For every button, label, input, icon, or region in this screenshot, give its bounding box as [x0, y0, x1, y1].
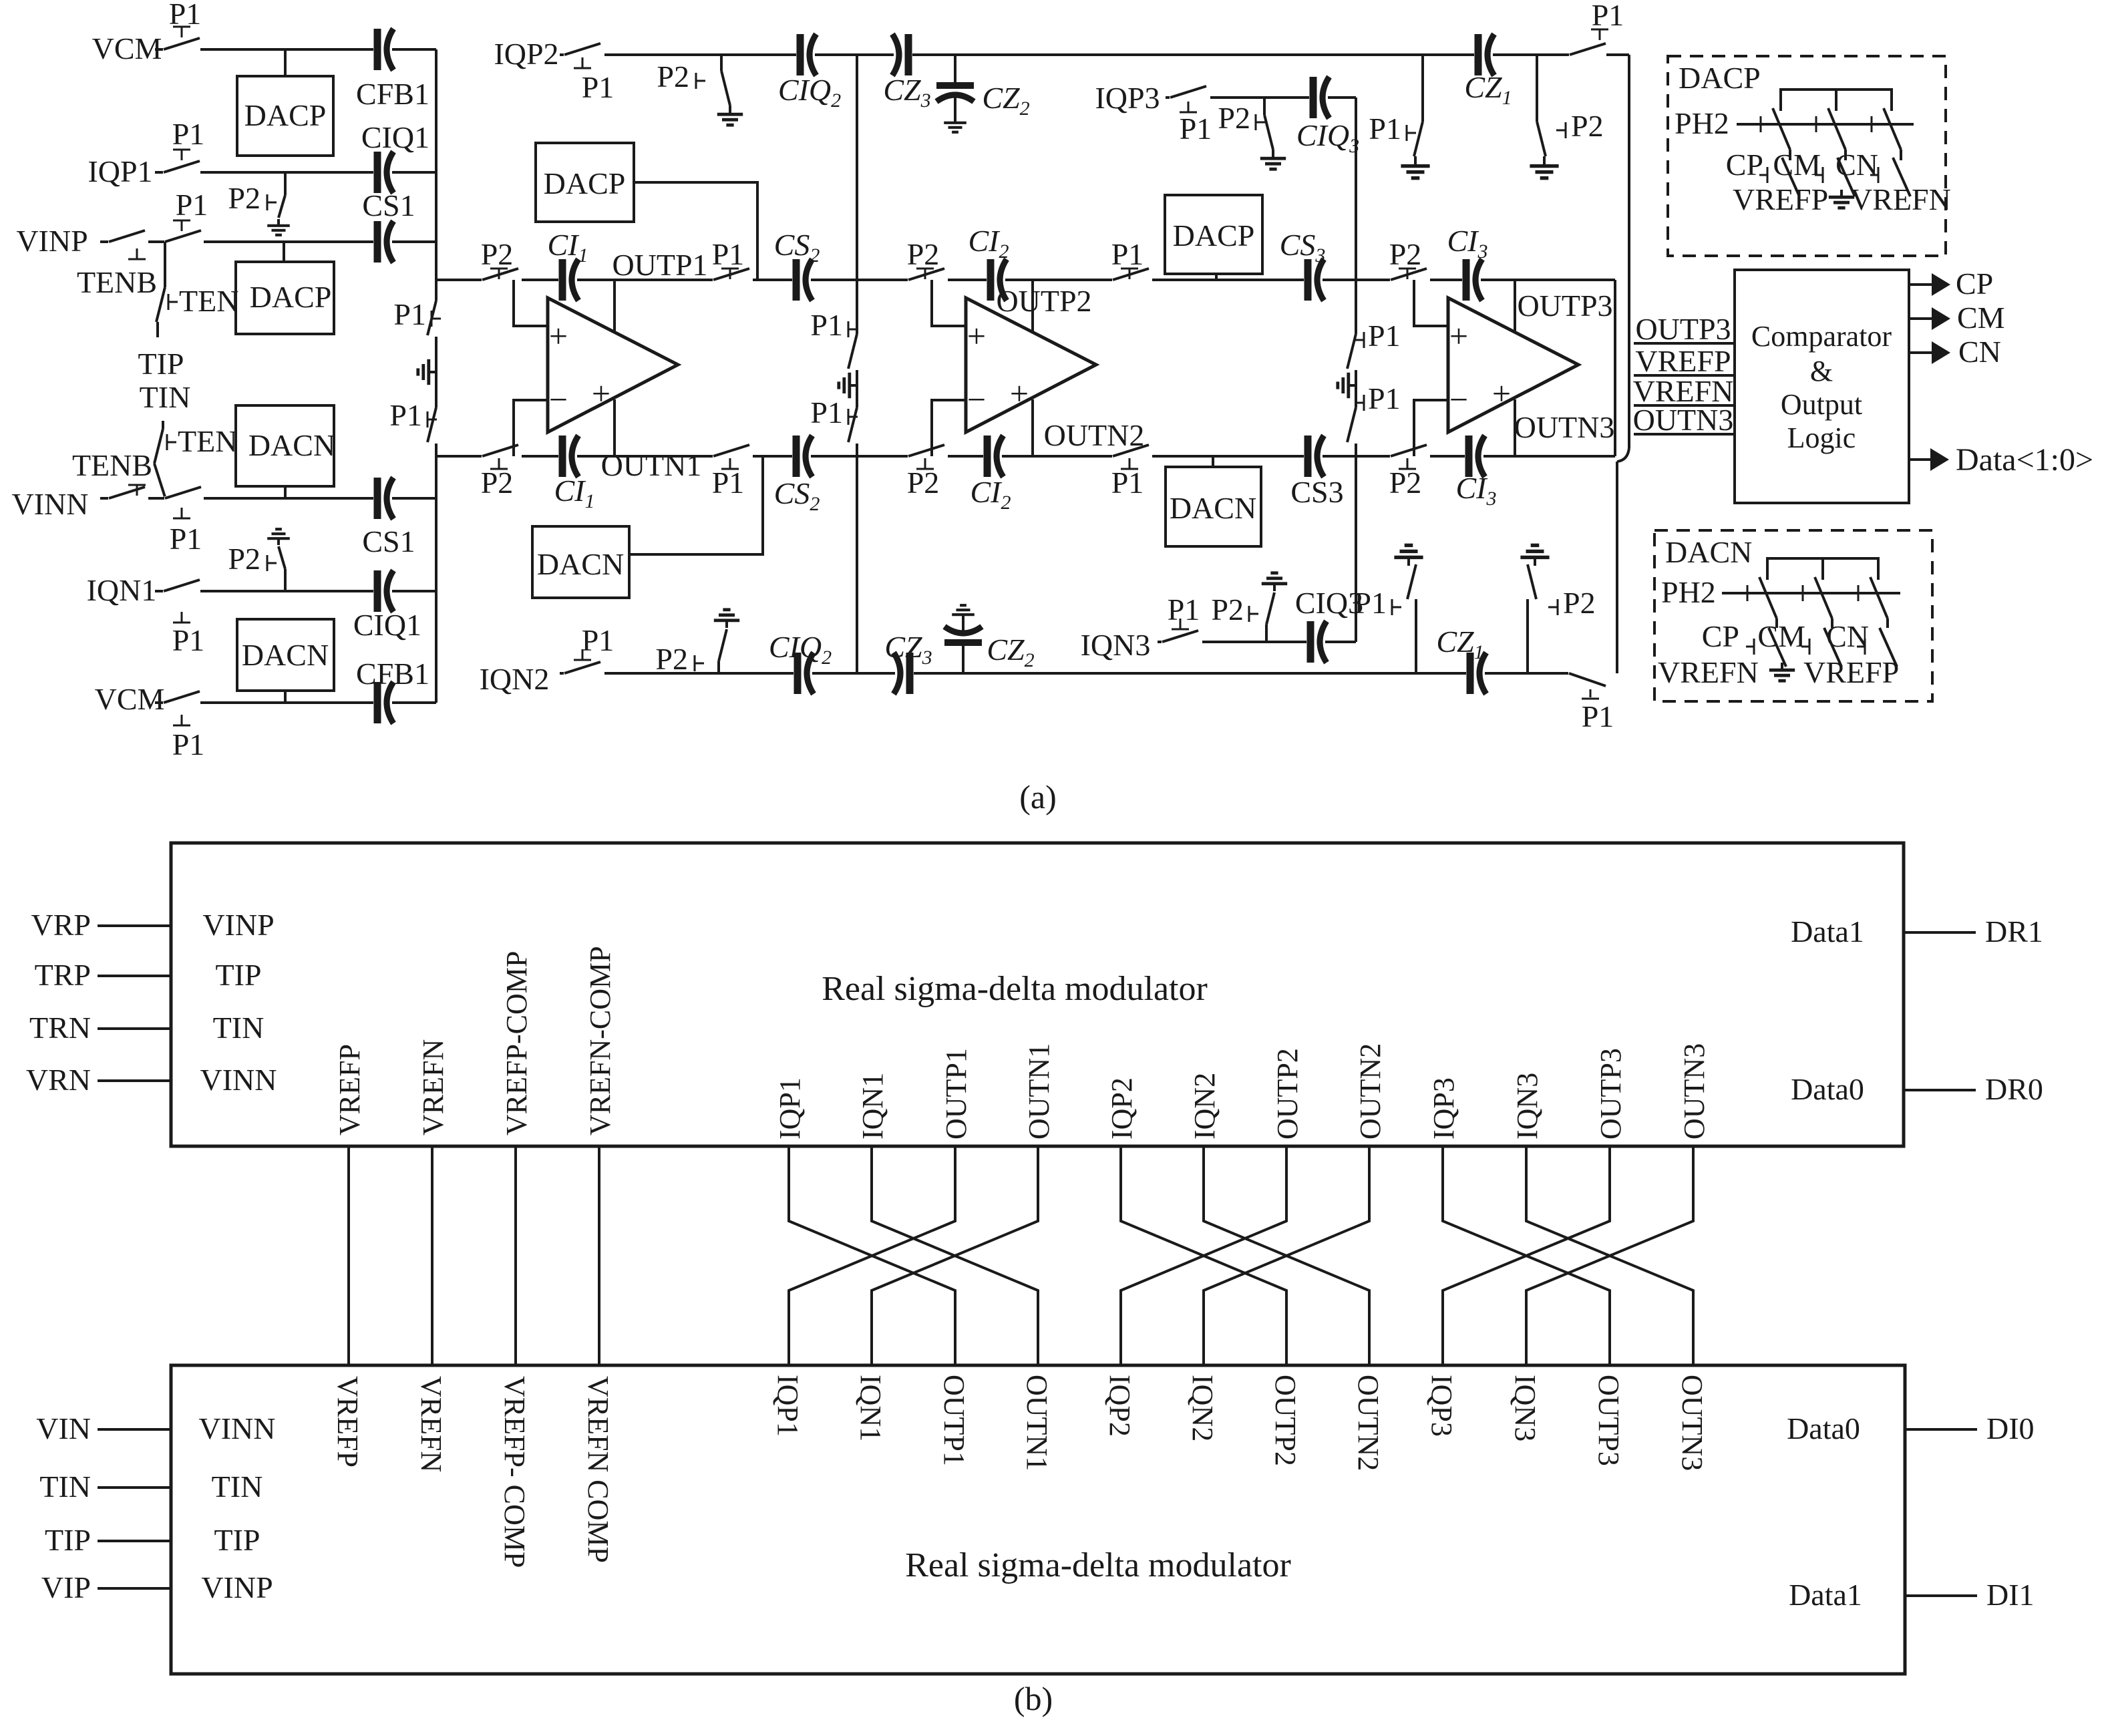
- svg-text:TIN: TIN: [39, 1469, 91, 1504]
- svg-text:IQN1: IQN1: [87, 573, 157, 607]
- svg-text:DACN: DACN: [1170, 491, 1256, 525]
- svg-text:IQN1: IQN1: [856, 1073, 889, 1140]
- svg-text:VCM: VCM: [92, 31, 162, 65]
- svg-text:P2: P2: [907, 237, 940, 271]
- svg-text:P2: P2: [1389, 237, 1422, 271]
- svg-text:P1: P1: [172, 117, 205, 151]
- svg-text:TIN: TIN: [213, 1011, 265, 1045]
- svg-text:VREFP- COMP: VREFP- COMP: [498, 1376, 531, 1568]
- svg-text:VIP: VIP: [41, 1570, 91, 1604]
- svg-text:VREFP-COMP: VREFP-COMP: [500, 951, 533, 1136]
- svg-text:OUTN3: OUTN3: [1633, 403, 1734, 437]
- svg-text:P2: P2: [1389, 466, 1422, 500]
- svg-text:IQP3: IQP3: [1095, 81, 1160, 115]
- svg-text:PH2: PH2: [1661, 575, 1716, 609]
- svg-text:P1: P1: [810, 395, 843, 429]
- svg-text:VREFN: VREFN: [415, 1376, 448, 1472]
- svg-text:IQP3: IQP3: [1427, 1077, 1460, 1140]
- svg-text:Logic: Logic: [1787, 421, 1856, 454]
- svg-text:DR1: DR1: [1985, 914, 2043, 948]
- svg-text:−: −: [967, 381, 986, 418]
- svg-text:Data1: Data1: [1791, 914, 1864, 948]
- svg-text:TIP: TIP: [138, 347, 184, 381]
- svg-text:P2: P2: [228, 181, 260, 215]
- svg-text:P1: P1: [1111, 466, 1144, 500]
- svg-text:−: −: [1449, 381, 1468, 418]
- svg-text:P1: P1: [169, 0, 202, 31]
- svg-text:P1: P1: [810, 308, 843, 342]
- svg-text:DACN: DACN: [537, 547, 624, 581]
- svg-text:IQN2: IQN2: [480, 662, 550, 696]
- svg-text:Real sigma-delta modulator: Real sigma-delta modulator: [822, 970, 1208, 1008]
- svg-text:IQN3: IQN3: [1511, 1073, 1544, 1140]
- svg-text:P1: P1: [393, 297, 426, 331]
- svg-text:CS1: CS1: [362, 524, 415, 558]
- svg-text:CM: CM: [1957, 301, 2005, 335]
- svg-text:VINN: VINN: [200, 1063, 277, 1097]
- svg-text:CIQ1: CIQ1: [353, 608, 421, 642]
- svg-text:VIN: VIN: [36, 1411, 91, 1445]
- svg-text:OUTN3: OUTN3: [1676, 1375, 1709, 1471]
- svg-text:P2: P2: [481, 466, 514, 500]
- svg-text:P1: P1: [176, 188, 208, 222]
- svg-text:DACN: DACN: [248, 428, 335, 462]
- svg-text:PH2: PH2: [1675, 106, 1729, 140]
- svg-text:IQN3: IQN3: [1081, 628, 1151, 662]
- svg-text:IQP3: IQP3: [1425, 1375, 1458, 1437]
- svg-text:P2: P2: [228, 542, 260, 576]
- svg-text:DACP: DACP: [250, 280, 332, 314]
- svg-text:Data1: Data1: [1789, 1578, 1862, 1612]
- svg-text:VRN: VRN: [26, 1063, 91, 1097]
- svg-text:P1: P1: [1368, 319, 1401, 353]
- svg-text:P1: P1: [1354, 586, 1387, 620]
- svg-text:CP: CP: [1726, 148, 1763, 182]
- svg-text:P1: P1: [712, 466, 745, 500]
- svg-text:&: &: [1810, 355, 1833, 387]
- svg-text:OUTP3: OUTP3: [1592, 1375, 1625, 1466]
- svg-text:VCM: VCM: [95, 682, 165, 716]
- svg-text:P1: P1: [1582, 699, 1614, 733]
- svg-text:CFB1: CFB1: [356, 77, 429, 111]
- svg-text:VREFP: VREFP: [1733, 182, 1828, 216]
- svg-text:VREFP: VREFP: [1803, 655, 1899, 689]
- svg-text:IQP2: IQP2: [1105, 1077, 1138, 1140]
- svg-text:IQP1: IQP1: [87, 154, 152, 188]
- svg-text:TENB: TENB: [72, 448, 152, 482]
- svg-text:OUTN2: OUTN2: [1354, 1043, 1387, 1140]
- svg-text:P1: P1: [712, 237, 745, 271]
- svg-text:P1: P1: [1111, 237, 1144, 271]
- svg-text:TIN: TIN: [140, 380, 191, 414]
- svg-text:OUTP3: OUTP3: [1517, 289, 1612, 323]
- svg-text:VREFP: VREFP: [331, 1376, 364, 1467]
- svg-text:VREFN-COMP: VREFN-COMP: [584, 946, 617, 1136]
- svg-text:TIP: TIP: [214, 1523, 260, 1557]
- svg-text:OUTN3: OUTN3: [1678, 1043, 1711, 1140]
- svg-text:TIN: TIN: [212, 1469, 263, 1504]
- svg-text:+: +: [1010, 375, 1029, 412]
- svg-text:P1: P1: [1592, 0, 1624, 32]
- svg-text:DR0: DR0: [1985, 1072, 2043, 1106]
- svg-text:TRN: TRN: [29, 1011, 91, 1045]
- svg-text:CIQ3: CIQ3: [1295, 586, 1363, 620]
- svg-text:Data<1:0>: Data<1:0>: [1956, 442, 2093, 478]
- svg-text:OUTN1: OUTN1: [1021, 1375, 1053, 1471]
- svg-text:Comparator: Comparator: [1751, 320, 1892, 353]
- svg-text:P2: P2: [657, 59, 689, 94]
- svg-text:CP: CP: [1956, 267, 1993, 301]
- svg-text:VINP: VINP: [202, 908, 274, 942]
- svg-text:DI1: DI1: [1986, 1578, 2035, 1612]
- svg-text:CS3: CS3: [1290, 475, 1343, 509]
- svg-text:CS1: CS1: [362, 188, 415, 222]
- svg-text:VREFN COMP: VREFN COMP: [582, 1376, 615, 1563]
- svg-text:OUTP1: OUTP1: [612, 248, 707, 282]
- svg-text:VINN: VINN: [199, 1411, 276, 1445]
- svg-text:(b): (b): [1014, 1680, 1053, 1717]
- svg-text:DI0: DI0: [1986, 1411, 2035, 1445]
- svg-text:CN: CN: [1958, 335, 2001, 369]
- svg-text:IQN2: IQN2: [1188, 1073, 1221, 1140]
- svg-text:+: +: [967, 317, 986, 355]
- svg-text:OUTN1: OUTN1: [1023, 1043, 1055, 1140]
- svg-text:IQP1: IQP1: [771, 1375, 804, 1437]
- svg-text:OUTN1: OUTN1: [601, 448, 702, 482]
- svg-text:+: +: [549, 317, 568, 355]
- svg-text:IQN1: IQN1: [854, 1375, 887, 1441]
- svg-text:IQN2: IQN2: [1186, 1375, 1219, 1441]
- svg-text:VINP: VINP: [201, 1570, 273, 1604]
- svg-text:P2: P2: [481, 237, 514, 271]
- svg-text:Data0: Data0: [1787, 1411, 1860, 1445]
- svg-text:OUTP1: OUTP1: [940, 1048, 973, 1140]
- svg-text:VINN: VINN: [12, 487, 89, 521]
- svg-text:TRP: TRP: [35, 958, 91, 992]
- svg-text:Real sigma-delta modulator: Real sigma-delta modulator: [905, 1546, 1291, 1584]
- svg-text:Data0: Data0: [1791, 1072, 1864, 1106]
- svg-text:CFB1: CFB1: [356, 657, 429, 691]
- svg-text:+: +: [592, 375, 610, 412]
- svg-text:P1: P1: [389, 398, 422, 432]
- svg-text:IQN3: IQN3: [1509, 1375, 1542, 1441]
- svg-text:IQP1: IQP1: [773, 1077, 806, 1140]
- svg-text:DACN: DACN: [1665, 535, 1752, 569]
- svg-text:VREFN: VREFN: [1658, 655, 1759, 689]
- svg-text:TEN: TEN: [179, 284, 238, 318]
- svg-text:OUTP2: OUTP2: [1271, 1048, 1304, 1140]
- svg-text:+: +: [1492, 375, 1511, 412]
- svg-text:P1: P1: [1369, 112, 1401, 146]
- svg-text:P1: P1: [1168, 592, 1200, 627]
- svg-text:P2: P2: [1571, 109, 1604, 143]
- svg-text:CIQ1: CIQ1: [361, 120, 429, 154]
- svg-text:DACN: DACN: [242, 638, 329, 672]
- svg-text:OUTN2: OUTN2: [1044, 418, 1145, 452]
- svg-text:TIP: TIP: [45, 1523, 91, 1557]
- svg-text:OUTN2: OUTN2: [1352, 1375, 1385, 1471]
- svg-text:P2: P2: [1211, 592, 1244, 627]
- svg-text:CP: CP: [1702, 619, 1739, 653]
- svg-text:+: +: [1449, 317, 1468, 355]
- svg-text:Output: Output: [1781, 388, 1862, 421]
- svg-text:DACP: DACP: [1173, 218, 1255, 252]
- svg-text:VRP: VRP: [31, 908, 91, 942]
- svg-text:VINP: VINP: [16, 224, 87, 258]
- svg-text:P2: P2: [655, 642, 688, 676]
- svg-text:OUTP1: OUTP1: [938, 1375, 971, 1466]
- svg-text:−: −: [549, 381, 568, 418]
- svg-text:P1: P1: [582, 623, 615, 657]
- svg-text:DACP: DACP: [544, 166, 626, 200]
- svg-text:VREFP: VREFP: [1635, 344, 1731, 378]
- svg-text:TIP: TIP: [216, 958, 262, 992]
- svg-text:OUTP2: OUTP2: [1269, 1375, 1302, 1466]
- svg-text:P2: P2: [1218, 101, 1250, 135]
- svg-text:P2: P2: [907, 466, 940, 500]
- svg-text:OUTP3: OUTP3: [1594, 1048, 1627, 1140]
- svg-text:CM: CM: [1757, 619, 1805, 653]
- svg-text:P1: P1: [172, 623, 205, 657]
- svg-text:P1: P1: [1368, 381, 1401, 415]
- svg-text:OUTP3: OUTP3: [1635, 312, 1731, 346]
- svg-text:DACP: DACP: [244, 98, 327, 132]
- svg-text:P1: P1: [582, 70, 615, 104]
- svg-text:TEN: TEN: [178, 424, 237, 458]
- svg-text:CM: CM: [1773, 148, 1821, 182]
- svg-text:(a): (a): [1019, 778, 1057, 816]
- svg-text:P2: P2: [1563, 586, 1596, 620]
- svg-text:VREFP: VREFP: [333, 1044, 366, 1136]
- svg-text:VREFN: VREFN: [417, 1039, 450, 1136]
- svg-text:IQP2: IQP2: [1103, 1375, 1136, 1437]
- svg-text:P1: P1: [172, 727, 205, 761]
- svg-text:P1: P1: [1180, 112, 1212, 146]
- svg-text:OUTP2: OUTP2: [996, 284, 1091, 318]
- svg-text:DACP: DACP: [1679, 61, 1761, 95]
- svg-text:IQP2: IQP2: [494, 37, 558, 71]
- svg-text:P1: P1: [170, 522, 202, 556]
- svg-text:TENB: TENB: [77, 265, 157, 299]
- svg-text:VREFN: VREFN: [1850, 182, 1951, 216]
- svg-text:OUTN3: OUTN3: [1514, 410, 1615, 444]
